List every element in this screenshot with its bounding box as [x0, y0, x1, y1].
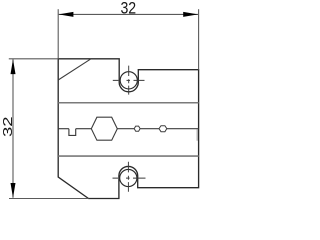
left dim extension line bottom [9, 198, 89, 200]
line small hex1 to hex2 [140, 128, 159, 130]
right edge inner tab line [196, 129, 198, 141]
bottom slot centerline horizontal [113, 177, 146, 179]
svg-text:32: 32 [2, 116, 16, 137]
left dim arrow top [11, 59, 16, 74]
top dim arrow left [59, 12, 74, 17]
left dim arrow bottom [11, 183, 16, 198]
top slot centerline horizontal [113, 79, 145, 81]
line hexagon to small hex 1 [117, 128, 134, 130]
line hex2 to right edge [167, 128, 199, 130]
small hexagon 1 [134, 126, 140, 131]
wire line to hexagon [76, 128, 92, 130]
small hexagon 2 [159, 126, 167, 132]
top dimension line [59, 13, 198, 15]
top dim arrow right [183, 12, 198, 17]
top dim extension line left [57, 9, 59, 59]
left dim extension line top [9, 58, 58, 60]
internal line upper [58, 102, 198, 104]
hexagon [91, 117, 117, 140]
part outline [58, 59, 198, 199]
left dimension line [12, 59, 14, 198]
top slot centerline vertical [128, 66, 130, 95]
feature line left segment [58, 128, 69, 130]
svg-text:32: 32 [120, 0, 136, 18]
bottom slot centerline vertical [127, 162, 129, 192]
top dim extension line right [198, 9, 200, 69]
internal line lower [58, 155, 198, 157]
notch [69, 129, 76, 136]
bottom hole circle [120, 169, 137, 186]
top hole circle [120, 72, 137, 89]
top-left bevel edge [58, 59, 91, 80]
